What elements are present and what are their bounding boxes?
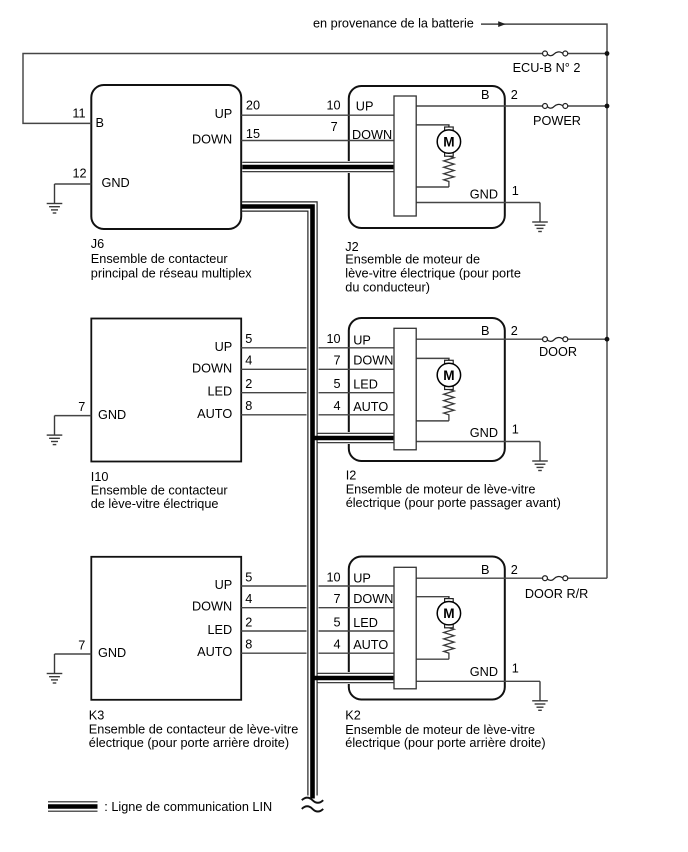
svg-text:8: 8 (245, 638, 252, 652)
svg-text:15: 15 (246, 127, 260, 141)
svg-text:M: M (443, 606, 454, 621)
svg-text:4: 4 (334, 638, 341, 652)
wire ECU-B row (23, 54, 542, 124)
svg-text:LED: LED (208, 385, 233, 399)
svg-text:POWER: POWER (533, 114, 581, 128)
svg-text:1: 1 (512, 662, 519, 676)
svg-text:en provenance de la batterie: en provenance de la batterie (313, 17, 474, 31)
connector block J6 (91, 85, 241, 229)
svg-text:Ensemble de moteur de lève-vit: Ensemble de moteur de lève-vitre (345, 723, 535, 737)
svg-text:UP: UP (356, 100, 374, 114)
wire I10 DOWN 4-7 (241, 368, 394, 370)
svg-text:5: 5 (334, 377, 341, 391)
svg-text:7: 7 (334, 592, 341, 606)
svg-text:5: 5 (245, 570, 252, 584)
svg-text:LED: LED (353, 616, 378, 630)
I2 connector bar (394, 328, 416, 450)
svg-text:20: 20 (246, 99, 260, 113)
svg-text:DOWN: DOWN (192, 361, 232, 375)
wire J6 GND pin 12 (55, 183, 92, 185)
svg-text:10: 10 (326, 99, 340, 113)
wire K2 motor bottom (416, 658, 449, 660)
svg-text:11: 11 (72, 107, 85, 121)
K2 connector bar (394, 567, 416, 689)
fuse DOOR (543, 337, 568, 342)
wire DOOR R/R fuse to bus (568, 577, 607, 579)
ground at I10 pin 7 (47, 416, 63, 445)
fuse ECU-B No 2 (543, 51, 568, 56)
svg-text:UP: UP (215, 340, 233, 354)
svg-text:5: 5 (334, 615, 341, 629)
svg-text:K3: K3 (89, 708, 105, 722)
svg-text:Ensemble de contacteur de lève: Ensemble de contacteur de lève-vitre (89, 722, 298, 736)
ground at J2 pin 1 (532, 203, 548, 232)
svg-text:7: 7 (331, 120, 338, 134)
wire J2 motor bottom (416, 186, 449, 188)
wire J2 motor top (416, 125, 449, 128)
motor M in K2 (437, 597, 460, 660)
svg-text:2: 2 (511, 563, 518, 577)
svg-text:GND: GND (102, 176, 130, 190)
fuse DOOR R/R (543, 576, 568, 581)
svg-text:2: 2 (511, 88, 518, 102)
junction node DOOR/bus (605, 337, 610, 342)
svg-text:GND: GND (470, 665, 498, 679)
svg-text:DOWN: DOWN (353, 592, 393, 606)
wire UP 20-10 (241, 114, 394, 116)
LIN line J6 to J2 (242, 161, 394, 173)
wire J2 B pin 2 to POWER fuse (416, 105, 542, 107)
wire POWER fuse to bus (568, 105, 607, 107)
LIN trunk from J6 down the page (242, 207, 312, 795)
svg-text:7: 7 (334, 354, 341, 368)
svg-text:K2: K2 (345, 709, 361, 723)
svg-text:: Ligne de communication LIN: : Ligne de communication LIN (104, 800, 272, 814)
svg-text:10: 10 (326, 332, 340, 346)
wire I2 B pin 2 to DOOR fuse (416, 338, 542, 340)
wire I2 GND pin 1 (416, 441, 540, 443)
svg-text:4: 4 (245, 592, 252, 606)
svg-text:5: 5 (245, 332, 252, 346)
svg-text:GND: GND (470, 188, 498, 202)
svg-text:GND: GND (98, 408, 126, 422)
LIN trunk continuation squiggle (302, 798, 323, 812)
junction node ECU-B/bus (605, 51, 610, 56)
wire I10 UP 5-10 (241, 347, 394, 349)
ground at J6 pin 12 (47, 184, 63, 213)
wire K3 AUTO 8-4 (241, 652, 394, 654)
svg-text:du conducteur): du conducteur) (345, 280, 430, 294)
svg-text:1: 1 (512, 184, 519, 198)
motor M in J2 (437, 125, 460, 187)
svg-text:8: 8 (245, 399, 252, 413)
svg-text:principal de réseau multiplex: principal de réseau multiplex (91, 266, 252, 280)
svg-text:électrique (pour porte arrière: électrique (pour porte arrière droite) (89, 736, 289, 750)
junction node POWER/bus (605, 104, 610, 109)
fuse POWER (543, 104, 568, 109)
wire K3 UP 5-10 (241, 585, 394, 587)
wire K3 DOWN 4-7 (241, 607, 394, 609)
LIN branch to K2 (318, 672, 395, 684)
svg-text:UP: UP (353, 572, 371, 586)
svg-text:lève-vitre électrique (pour po: lève-vitre électrique (pour porte (345, 266, 521, 280)
svg-text:DOOR R/R: DOOR R/R (525, 587, 588, 601)
svg-text:10: 10 (326, 570, 340, 584)
svg-text:Ensemble de contacteur: Ensemble de contacteur (91, 484, 229, 498)
svg-text:UP: UP (215, 578, 233, 592)
svg-text:AUTO: AUTO (353, 638, 388, 652)
ground at I2 pin 1 (532, 442, 548, 471)
switch block I10 (91, 319, 241, 462)
svg-text:Ensemble de contacteur: Ensemble de contacteur (91, 252, 229, 266)
svg-text:7: 7 (78, 638, 85, 652)
svg-text:1: 1 (512, 423, 519, 437)
svg-text:M: M (443, 368, 454, 383)
svg-text:DOWN: DOWN (192, 133, 232, 147)
svg-text:Ensemble de moteur de lève-vit: Ensemble de moteur de lève-vitre (346, 483, 536, 497)
svg-text:B: B (96, 116, 104, 130)
wire K3 GND pin 7 (55, 653, 92, 655)
svg-text:B: B (481, 88, 489, 102)
svg-text:4: 4 (334, 399, 341, 413)
wire K2 B pin 2 to DOOR R/R fuse (416, 577, 542, 579)
svg-text:UP: UP (215, 107, 233, 121)
svg-text:LED: LED (353, 378, 378, 392)
wire K2 GND pin 1 (416, 680, 540, 682)
wire DOWN 15-7 (241, 140, 394, 142)
svg-text:électrique (pour porte passage: électrique (pour porte passager avant) (346, 496, 561, 510)
svg-text:2: 2 (245, 377, 252, 391)
motor M in I2 (437, 358, 460, 421)
motor block I2 (349, 318, 505, 461)
svg-text:DOWN: DOWN (352, 128, 392, 142)
svg-text:AUTO: AUTO (197, 407, 232, 421)
svg-text:AUTO: AUTO (197, 645, 232, 659)
wire I10 GND pin 7 (55, 415, 92, 417)
svg-text:4: 4 (245, 354, 252, 368)
svg-text:12: 12 (72, 167, 86, 181)
legend LIN line sample (48, 801, 98, 803)
wire from battery to right bus (481, 24, 607, 578)
svg-text:DOWN: DOWN (192, 600, 232, 614)
svg-text:DOOR: DOOR (539, 345, 577, 359)
wire I10 AUTO 8-4 (241, 414, 394, 416)
wire K2 motor top (416, 597, 449, 600)
switch block K3 (91, 557, 241, 700)
J2 connector bar (394, 96, 416, 216)
motor block K2 (349, 557, 505, 700)
wire I10 LED 2-5 (241, 392, 394, 394)
svg-text:de lève-vitre électrique: de lève-vitre électrique (91, 497, 219, 511)
svg-text:I2: I2 (346, 469, 357, 483)
arrowhead battery feed (498, 21, 506, 27)
svg-text:2: 2 (511, 324, 518, 338)
svg-text:GND: GND (470, 426, 498, 440)
svg-text:LED: LED (208, 623, 233, 637)
wire I2 motor bottom (416, 420, 449, 422)
svg-text:J6: J6 (91, 237, 104, 251)
svg-text:électrique (pour porte arrière: électrique (pour porte arrière droite) (345, 736, 545, 750)
motor block J2 (349, 86, 505, 228)
svg-text:Ensemble de moteur de: Ensemble de moteur de (345, 253, 480, 267)
ground at K2 pin 1 (532, 681, 548, 710)
svg-text:I10: I10 (91, 470, 109, 484)
wire K3 LED 2-5 (241, 630, 394, 632)
wire I2 motor top (416, 358, 449, 361)
svg-text:DOWN: DOWN (353, 353, 393, 367)
svg-text:B: B (481, 324, 489, 338)
svg-text:UP: UP (353, 333, 371, 347)
svg-text:7: 7 (78, 400, 85, 414)
LIN branch to I2 (318, 432, 395, 444)
svg-text:ECU-B N° 2: ECU-B N° 2 (513, 61, 581, 75)
wire J2 GND pin 1 (416, 202, 540, 204)
svg-text:GND: GND (98, 646, 126, 660)
svg-text:B: B (481, 563, 489, 577)
svg-text:2: 2 (245, 615, 252, 629)
svg-text:AUTO: AUTO (353, 400, 388, 414)
wire DOOR fuse to bus (568, 338, 607, 340)
ground at K3 pin 7 (47, 654, 63, 683)
wire ECU-B fuse to bus (568, 53, 607, 55)
svg-text:M: M (443, 135, 454, 150)
